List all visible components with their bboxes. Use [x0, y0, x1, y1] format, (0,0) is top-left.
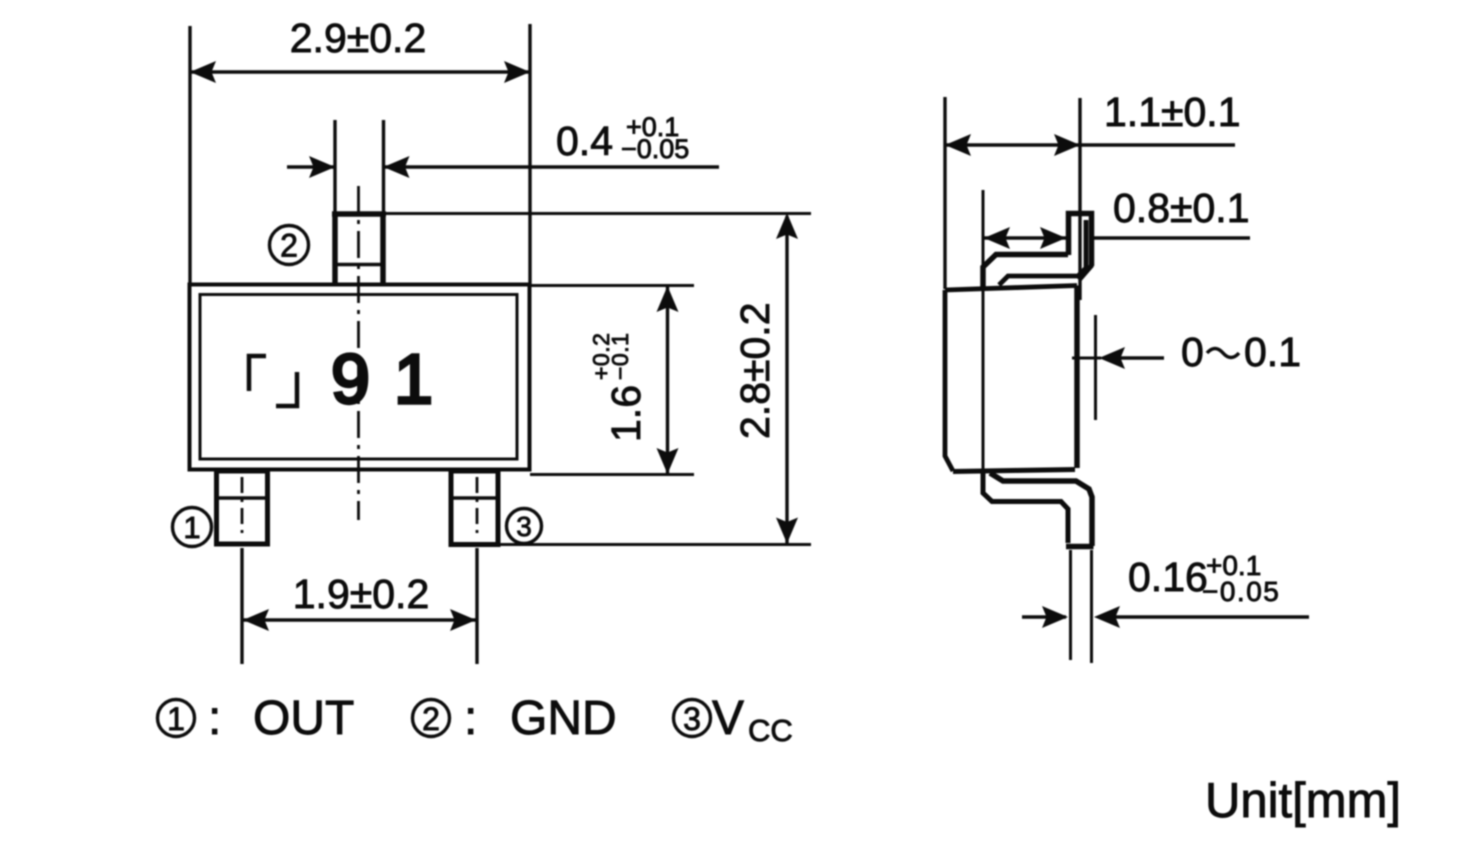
svg-text:1: 1	[167, 701, 185, 737]
svg-text:1: 1	[183, 510, 200, 545]
svg-text:−0.05: −0.05	[1202, 576, 1280, 607]
svg-text:2.8±0.2: 2.8±0.2	[732, 303, 778, 440]
svg-text:OUT: OUT	[253, 692, 354, 745]
svg-text:−0.1: −0.1	[607, 333, 633, 380]
svg-text:0.16: 0.16	[1128, 554, 1208, 600]
svg-text:1.6: 1.6	[603, 385, 649, 442]
svg-text:1.9±0.2: 1.9±0.2	[293, 571, 430, 617]
svg-text:0.4: 0.4	[556, 118, 613, 164]
svg-text:3: 3	[683, 701, 701, 737]
svg-text::: :	[208, 692, 221, 745]
svg-text:2.9±0.2: 2.9±0.2	[290, 15, 427, 61]
svg-text:9: 9	[331, 340, 370, 418]
svg-text:0.8±0.1: 0.8±0.1	[1113, 185, 1250, 231]
svg-text:1: 1	[394, 340, 433, 418]
svg-text:2: 2	[422, 701, 440, 737]
svg-text::: :	[464, 692, 477, 745]
svg-text:−0.05: −0.05	[621, 134, 689, 164]
svg-text:0: 0	[1181, 329, 1204, 375]
svg-text:CC: CC	[748, 713, 793, 748]
svg-text:2: 2	[280, 228, 298, 264]
svg-text:0.1: 0.1	[1244, 329, 1301, 375]
svg-text:1.1±0.1: 1.1±0.1	[1104, 89, 1241, 135]
svg-text:V: V	[712, 692, 744, 745]
svg-text:3: 3	[516, 511, 532, 542]
svg-text:Unit[mm]: Unit[mm]	[1205, 774, 1401, 828]
svg-text:GND: GND	[510, 692, 617, 745]
